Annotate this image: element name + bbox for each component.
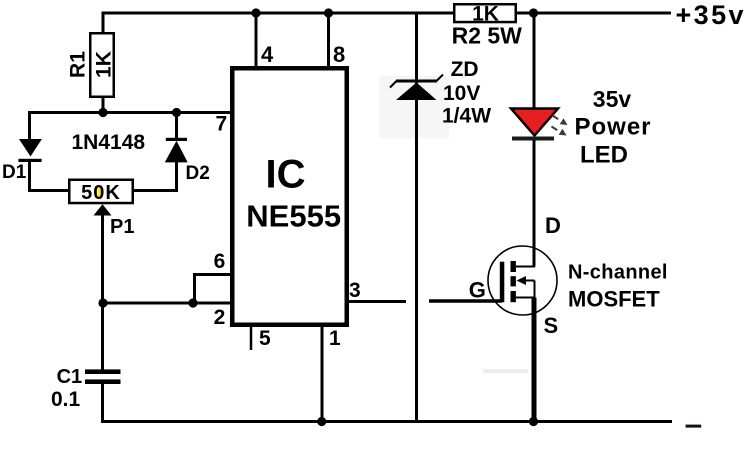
- svg-text:2: 2: [214, 306, 226, 329]
- svg-text:MOSFET: MOSFET: [568, 287, 660, 312]
- svg-text:5: 5: [259, 327, 271, 350]
- op-amp U1 IC NE555 box: [232, 68, 347, 325]
- node junction MOSFET source on bottom rail: [529, 417, 538, 426]
- node junction wiper/C1: [98, 298, 107, 307]
- wire source to bottom rail: [532, 298, 537, 422]
- node junction pin4 rail: [251, 8, 260, 17]
- LED power led: [511, 109, 558, 136]
- svg-text:N-channel: N-channel: [568, 262, 668, 284]
- svg-text:R2 5W: R2 5W: [452, 22, 523, 48]
- wire D1 to pot left: [30, 161, 70, 191]
- svg-text:1/4W: 1/4W: [442, 105, 491, 128]
- svg-text:10V: 10V: [443, 82, 480, 105]
- diode D1: [19, 139, 42, 157]
- svg-text:+35v: +35v: [676, 0, 745, 30]
- MOSFET body arrow: [517, 276, 527, 285]
- svg-text:4: 4: [261, 42, 274, 67]
- zener diode ZD: [396, 80, 437, 83]
- transistor Q1 MOSFET circle: [488, 246, 557, 315]
- LED light arrows: [552, 116, 568, 136]
- potentiometer P1 50K: [69, 180, 133, 203]
- MOSFET channel bars: [511, 261, 516, 272]
- svg-text:8: 8: [333, 42, 345, 67]
- MOSFET drain link: [516, 266, 535, 268]
- svg-text:0.1: 0.1: [51, 388, 81, 411]
- wire gate: [429, 299, 502, 302]
- wire top-left corner drop to R1: [102, 12, 105, 34]
- svg-text:D2: D2: [186, 163, 210, 184]
- wire pin3 output: [349, 300, 406, 303]
- wire top rail left segment: [102, 12, 454, 15]
- wire pin2 horizontal: [103, 302, 232, 305]
- wire pin4: [255, 13, 258, 66]
- node junction below R1: [98, 108, 107, 117]
- svg-text:35v: 35v: [593, 86, 632, 112]
- svg-text:Power: Power: [575, 114, 652, 141]
- svg-text:IC: IC: [266, 153, 306, 197]
- MOSFET source link: [516, 297, 535, 299]
- negative terminal dash: [686, 425, 702, 428]
- wire pin7 horizontal: [30, 111, 233, 114]
- svg-text:D1: D1: [2, 162, 27, 183]
- svg-text:7: 7: [216, 113, 228, 136]
- diode D2: [166, 138, 187, 141]
- wire top rail right segment: [517, 12, 671, 15]
- value 50K of P1: [98, 187, 103, 197]
- svg-text:D: D: [545, 213, 561, 238]
- zener backdrop: [379, 76, 449, 138]
- wire C1 bottom lead: [101, 384, 104, 420]
- svg-text:LED: LED: [580, 142, 628, 169]
- svg-text:3: 3: [349, 279, 361, 302]
- node junction pin6 branch: [188, 298, 197, 307]
- wire C1 top lead: [101, 303, 104, 370]
- wire left drop to D1: [28, 111, 31, 139]
- wire bottom rail: [101, 420, 672, 423]
- svg-text:50K: 50K: [81, 182, 121, 204]
- wire D2 to pot right: [134, 161, 177, 191]
- wire pin1 to bottom rail: [321, 327, 324, 422]
- wiper arrow of P1: [94, 204, 112, 215]
- svg-text:G: G: [469, 278, 486, 303]
- svg-text:R1: R1: [67, 51, 90, 78]
- wire pin6 jog: [195, 275, 233, 304]
- wire pin5 stub: [250, 327, 253, 350]
- node junction pin8 rail: [324, 8, 333, 17]
- wire LED top lead: [533, 13, 536, 109]
- svg-text:ZD: ZD: [451, 58, 479, 81]
- node junction R2 / LED: [529, 8, 538, 17]
- faint watermark streak: [483, 369, 528, 373]
- wire wiper down: [101, 215, 104, 303]
- wire zener branch vertical: [415, 13, 418, 422]
- capacitor C1: [85, 369, 121, 374]
- svg-text:6: 6: [214, 250, 226, 273]
- resistor R2: [454, 4, 516, 22]
- wire D2 top lead: [175, 113, 178, 139]
- svg-text:P1: P1: [110, 216, 134, 238]
- wire pin8: [327, 13, 330, 66]
- svg-text:C1: C1: [57, 366, 83, 388]
- svg-text:1N4148: 1N4148: [72, 131, 146, 154]
- svg-text:1K: 1K: [93, 51, 116, 78]
- node junction pin1 on bottom rail: [317, 417, 326, 426]
- svg-text:NE555: NE555: [246, 199, 341, 234]
- svg-text:S: S: [544, 313, 559, 338]
- wire R1 bottom lead: [102, 97, 105, 113]
- svg-text:1: 1: [329, 327, 341, 350]
- MOSFET gate bar: [500, 262, 505, 303]
- node junction above D2: [172, 108, 181, 117]
- resistor R1: [90, 33, 114, 97]
- wire LED to MOSFET drain: [533, 140, 536, 267]
